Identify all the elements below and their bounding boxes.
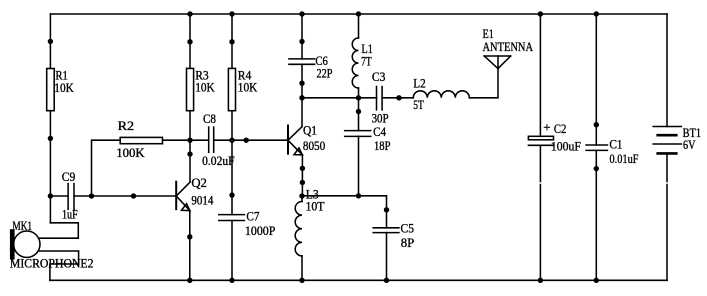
wire L2 to antenna: [469, 69, 498, 98]
node Q1 emitter joint 1: [300, 166, 305, 171]
wire BT1 branch upper: [666, 14, 668, 127]
svg-text:0.02uF: 0.02uF: [202, 153, 235, 168]
node C9 row joint: [131, 193, 136, 198]
inductor L1: [352, 38, 358, 98]
capacitor C8 plates: [209, 127, 214, 152]
svg-text:MICROPHONE2: MICROPHONE2: [10, 256, 94, 271]
svg-text:C3: C3: [372, 69, 386, 84]
node R1 upper joint: [48, 39, 53, 44]
node R1 lower joint: [48, 136, 53, 141]
node C7 top joint: [229, 192, 234, 197]
node top rail C1: [594, 11, 599, 16]
wire C6 to Q1 collector: [301, 64, 303, 126]
node ground C5: [384, 278, 389, 283]
node C4 top joint: [356, 109, 361, 114]
svg-text:Q1: Q1: [303, 123, 317, 138]
node L3 top junction: [299, 193, 304, 198]
wire C4 lower: [358, 136, 360, 195]
svg-text:10K: 10K: [195, 80, 215, 95]
node C6 upper joint: [299, 39, 304, 44]
svg-text:0.01uF: 0.01uF: [610, 151, 639, 166]
svg-text:10K: 10K: [54, 80, 74, 95]
resistor R2: [120, 137, 162, 143]
node Q2 collector joint: [187, 151, 192, 156]
capacitor C2 plates: [528, 136, 553, 145]
svg-text:C7: C7: [246, 208, 259, 223]
svg-text:100K: 100K: [116, 145, 145, 160]
svg-text:100uF: 100uF: [551, 138, 581, 153]
wire bottom ground rail: [50, 279, 667, 281]
node ground C1: [594, 278, 599, 283]
svg-text:R2: R2: [118, 118, 135, 133]
node C6 lower joint: [299, 81, 304, 86]
node C6 C3 junction: [299, 95, 304, 100]
wire C3 row left: [302, 97, 377, 99]
node top rail L1: [356, 11, 361, 16]
wire L1 branch upper: [358, 14, 360, 38]
capacitor C1 plates: [586, 145, 607, 150]
wire R4 branch upper: [231, 14, 233, 68]
svg-text:C1: C1: [609, 136, 622, 151]
node top rail R3: [187, 11, 192, 16]
wire R4 lower to C7: [231, 111, 233, 215]
node ground C2: [538, 278, 543, 283]
wire C9 row left: [50, 195, 68, 197]
node C5 top joint: [384, 207, 389, 212]
wire C7 to ground: [231, 221, 233, 281]
node top rail R4: [229, 11, 234, 16]
node C8 row joint: [244, 138, 249, 143]
antenna E1: [484, 56, 511, 69]
node C1 upper joint: [594, 122, 599, 127]
svg-text:7T: 7T: [361, 54, 372, 69]
svg-text:ANTENNA: ANTENNA: [483, 39, 534, 54]
node C1 lower joint: [594, 166, 599, 171]
svg-text:5T: 5T: [413, 97, 424, 112]
resistor R1: [47, 69, 55, 111]
svg-text:9014: 9014: [191, 192, 213, 207]
node C9 left junction: [48, 193, 53, 198]
node Q2 emitter joint: [187, 234, 192, 239]
node L1 C3 junction: [356, 95, 361, 100]
transistor Q2: [176, 182, 190, 211]
node C3 L2 joint: [396, 95, 401, 100]
capacitor C3 plates: [377, 87, 383, 110]
wire C1 lower: [595, 150, 597, 280]
wire C6 branch upper: [301, 14, 303, 59]
svg-text:1uF: 1uF: [62, 206, 78, 221]
wire BT1 lower: [666, 153, 668, 181]
node R4 upper joint: [229, 39, 234, 44]
node ground L3: [299, 278, 304, 283]
wire C4 branch upper: [358, 98, 360, 131]
wire C9 row right to Q2 base: [74, 195, 176, 197]
svg-text:MK1: MK1: [12, 218, 32, 233]
node R3 upper joint: [187, 39, 192, 44]
inductor L3: [295, 196, 302, 280]
wire R3 lower to Q2 collector: [189, 111, 191, 182]
svg-text:C8: C8: [203, 111, 216, 126]
wire L3 top row to C5: [302, 196, 387, 228]
node Q1 emitter joint 2: [300, 180, 305, 185]
node ground C7: [229, 278, 234, 283]
node top rail C6: [299, 11, 304, 16]
wire C2 branch upper: [539, 14, 541, 136]
capacitor C5 plates: [373, 228, 399, 233]
svg-text:C5: C5: [401, 221, 415, 236]
wire microphone bottom return: [38, 251, 79, 280]
wire top power rail: [50, 13, 667, 15]
svg-text:L2: L2: [413, 75, 426, 90]
wire R1 lower: [49, 111, 51, 223]
wire jog to microphone top: [39, 223, 79, 238]
svg-text:10K: 10K: [238, 80, 258, 95]
svg-text:6V: 6V: [683, 137, 696, 152]
wire Q2 emitter to ground: [189, 211, 191, 281]
wire C3 to L2: [382, 97, 413, 99]
node R2 leg junction: [89, 193, 94, 198]
wire C2 lower: [539, 145, 541, 181]
resistor R4: [228, 68, 235, 110]
wire R2 left leg: [92, 140, 121, 196]
wire Q1 emitter down to L3: [301, 155, 303, 196]
wire C8 to Q1 base: [214, 139, 288, 141]
wire C5 to ground: [386, 233, 388, 281]
svg-text:C4: C4: [373, 124, 386, 139]
node R2 R3 junction: [187, 138, 192, 143]
inductor L2: [413, 91, 469, 98]
svg-text:18P: 18P: [374, 138, 391, 153]
node C8 R4 junction: [229, 138, 234, 143]
transistor Q1: [288, 126, 302, 155]
wire R1 branch upper: [49, 14, 51, 69]
wire R3 branch upper: [189, 14, 191, 68]
resistor R3: [187, 68, 194, 110]
capacitor C7 plates: [219, 215, 245, 221]
svg-text:+: +: [543, 120, 550, 135]
microphone MK1: [11, 230, 40, 259]
wire C1 branch upper: [595, 14, 597, 145]
node ground Q2: [187, 278, 192, 283]
svg-text:C2: C2: [554, 121, 567, 136]
capacitor C9 plates: [68, 184, 74, 210]
wire R2 to C8: [163, 139, 209, 141]
svg-text:Q2: Q2: [191, 175, 207, 190]
node C4 L3 row junction: [356, 193, 361, 198]
capacitor C4 plates: [345, 131, 371, 137]
svg-text:8050: 8050: [303, 138, 325, 153]
svg-text:8P: 8P: [401, 235, 415, 250]
svg-text:C9: C9: [62, 169, 76, 184]
svg-text:1000P: 1000P: [245, 223, 276, 238]
node top rail C2: [538, 11, 543, 16]
battery BT1: [653, 127, 681, 154]
svg-text:10T: 10T: [306, 199, 325, 214]
capacitor C6 plates: [289, 59, 315, 64]
svg-text:22P: 22P: [317, 66, 333, 81]
